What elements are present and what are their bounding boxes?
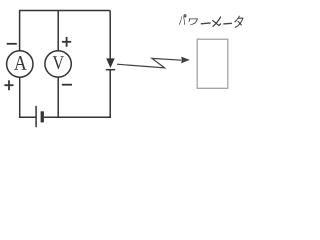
- label glyph me (katakana): [212, 17, 221, 27]
- power meter box: [197, 39, 228, 88]
- ammeter letter A: [14, 56, 26, 70]
- ammeter A1 circle: [7, 51, 33, 77]
- wire top: [19, 10, 110, 12]
- label power meter (katakana pa wa ta): [179, 15, 244, 28]
- battery BT1 long plate: [35, 106, 37, 127]
- voltmeter plus sign: [62, 37, 71, 47]
- wire left lower: [19, 77, 21, 117]
- wire voltmeter bottom: [57, 77, 59, 117]
- wire bottom right: [44, 116, 111, 118]
- annotation arrow zigzag: [117, 58, 182, 68]
- battery BT1 short thick plate: [41, 111, 44, 122]
- ammeter minus sign: [7, 43, 17, 45]
- wire left upper: [19, 11, 21, 51]
- annotation arrow head: [181, 57, 190, 64]
- ammeter plus sign: [4, 80, 13, 90]
- voltmeter V1 circle: [45, 51, 71, 77]
- wire right lower: [109, 70, 111, 118]
- label long-vowel bar 2: [223, 22, 232, 25]
- diode D1 triangle: [106, 58, 115, 68]
- voltmeter minus sign: [62, 84, 72, 86]
- wire right upper: [109, 11, 111, 60]
- label long-vowel bar 1: [201, 22, 211, 25]
- wire voltmeter top: [57, 11, 59, 51]
- voltmeter letter V: [53, 56, 64, 69]
- diode D1 cathode bar: [106, 69, 115, 71]
- label handakuten of pa: [184, 15, 186, 17]
- wire bottom left: [19, 116, 36, 118]
